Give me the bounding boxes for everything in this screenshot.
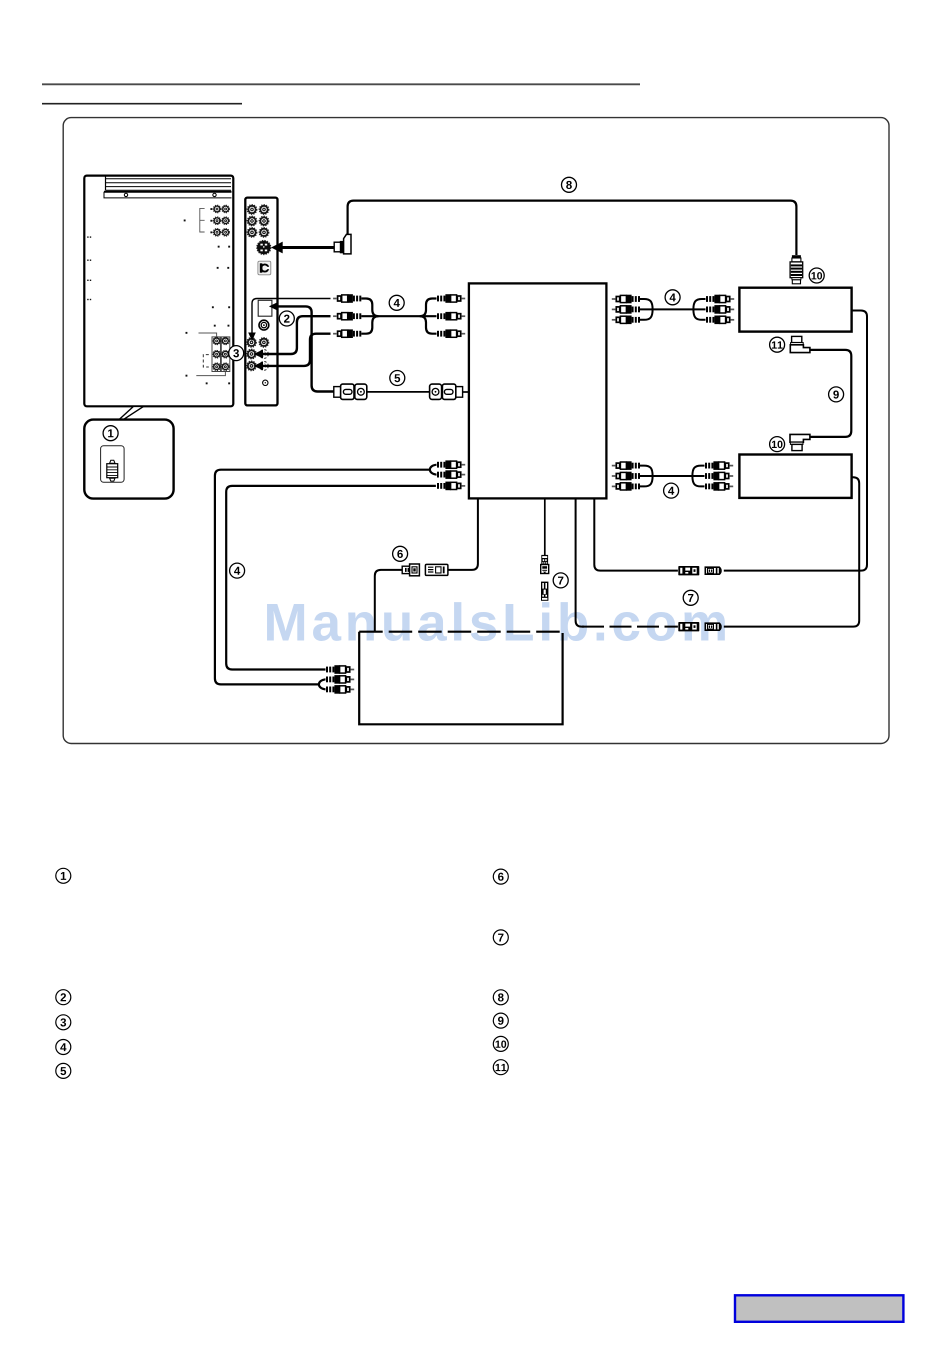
RCA cable set 4 (left): cords and trunk [361, 299, 437, 334]
label 4 (bottom right) [664, 483, 679, 498]
panel single RCA jack [259, 320, 269, 330]
wire: cable 6 right tail up to central box [448, 498, 478, 570]
wire: stub down to vertical connector 7 [544, 498, 546, 555]
AV terminal panel [245, 198, 277, 406]
system cable 5: left connector [334, 384, 367, 399]
RCA cable set 4 (top right): left plugs [612, 295, 641, 324]
panel S-video input jack [257, 240, 271, 254]
system cable 5: link cord [366, 391, 429, 393]
label 7 (vertical pair) [553, 573, 568, 588]
legend list circled numbers (left column) [56, 868, 71, 883]
connector pair 6 [402, 564, 448, 576]
wire: thin lead from video plug down to panel jack [248, 299, 330, 342]
antenna plug 10 (top) [790, 255, 803, 284]
label 2 [279, 311, 294, 326]
RCA cable set 4 (top right): cords [640, 299, 706, 320]
fuse icon [107, 464, 118, 478]
TV tuner box (top right) [739, 288, 851, 332]
label 6 [393, 546, 408, 561]
panel jack cluster 2x3 [247, 205, 269, 238]
label 7 (right rows) [683, 590, 698, 605]
wire: cable 6 left tail down to bottom box [375, 570, 402, 632]
panel logo badge [258, 261, 271, 275]
label 10 (lower) [770, 437, 785, 452]
label 3 [229, 346, 244, 361]
label 9 [829, 387, 844, 402]
RCA cable set 4 (bottom right): right plugs [705, 461, 734, 490]
label 11 [770, 337, 785, 352]
title underline long [42, 83, 640, 85]
legend list circled numbers (right column) [493, 869, 508, 884]
label 8 [562, 177, 577, 192]
wire: power lead from DVD tuner (right loop) [724, 477, 859, 626]
TV small legend dots [87, 220, 230, 385]
connector pair 7 (upper row) [678, 566, 721, 575]
callout pointer [118, 406, 144, 420]
wire: long AV cable upper (to bottom box) [215, 470, 431, 685]
connector pair 7 (lower row) [678, 622, 721, 631]
label 4 [389, 295, 404, 310]
panel bottom jacks [247, 338, 269, 371]
svg-text:ManualsLib.com: ManualsLib.com [264, 593, 732, 652]
DVD tuner box (bottom right) [739, 455, 851, 498]
wire: cable 8 long run [348, 201, 797, 255]
panel screw [263, 380, 268, 385]
wire: long AV cable lower [226, 486, 436, 670]
wire: audio lead arrow upper [254, 316, 331, 358]
wire: dashed power lead to central box [576, 498, 678, 626]
outer diagram frame [63, 118, 889, 744]
label 4 (top right) [665, 290, 680, 305]
RCA cable set 4 (bottom right): left plugs [612, 461, 641, 490]
antenna adapter 10 (lower) [790, 434, 810, 450]
wire: power lead from TV tuner (right loop) [724, 311, 867, 571]
TV bottom jack cluster (component terminals) [196, 333, 230, 376]
TV top jack cluster (2x3 RCA) [200, 205, 230, 236]
TV monitor rear panel [84, 176, 233, 407]
RCA cable set 4 (left): left plugs [333, 294, 362, 338]
label 10 (top) [809, 268, 824, 283]
RCA cable set 4 (top right): right plugs [706, 295, 735, 324]
panel S-video label box [258, 300, 272, 316]
hideaway unit (central box) [469, 283, 607, 498]
bottom box plugs [319, 665, 354, 694]
wire: antenna cable 9 [810, 350, 851, 437]
RCA cable set 4 (left): right plugs [437, 294, 466, 338]
system cable 5: right connector [430, 384, 469, 399]
wire: audio lead arrow lower [254, 334, 331, 371]
antenna adapter 11 [790, 336, 810, 352]
wire: power lead left of connector to central box [594, 498, 678, 570]
label 4 (long cable) [230, 563, 245, 578]
central box left-bottom plugs [430, 460, 465, 490]
bottom middle box (dashed top) [359, 632, 562, 725]
title underline short [42, 103, 242, 105]
label 5 [390, 371, 405, 386]
RCA cable set 4 (bottom right): cords [640, 466, 705, 487]
S-video plug of cable 8 [271, 234, 351, 254]
vertical connector pair 7 [541, 555, 549, 601]
wire: cable 2 into S-video label box [269, 302, 334, 391]
download button [735, 1295, 903, 1322]
callout bubble 1 (battery note) [84, 420, 173, 499]
